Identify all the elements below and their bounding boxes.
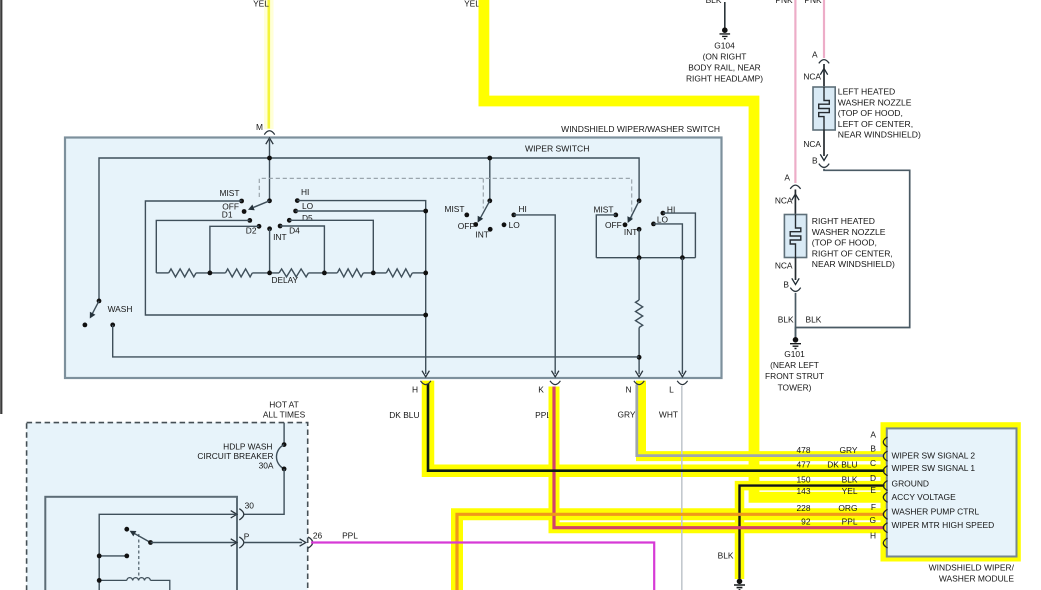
connector A arc (left nozzle) [819, 60, 829, 64]
svg-text:RIGHT OF CENTER,: RIGHT OF CENTER, [812, 248, 893, 258]
svg-text:L: L [669, 385, 674, 395]
connector K arc [550, 381, 560, 385]
svg-text:A: A [784, 172, 790, 182]
wire P to inline connector 26 [244, 542, 302, 544]
wire feed bus from M to wash switch and wiper contacts [99, 158, 639, 301]
switch S3 blade arrow [627, 216, 633, 223]
switch S1 contact D6 [287, 218, 292, 223]
windshield wiper/washer module box [887, 428, 1017, 556]
ground G104 splice [722, 27, 728, 33]
right heated washer nozzle heater element [790, 215, 801, 258]
module pin D connector arc [883, 481, 887, 491]
wire relay pin 30 internal [99, 514, 236, 590]
switch S2 blade arrow [478, 216, 484, 223]
svg-text:TOWER): TOWER) [778, 382, 812, 392]
svg-text:92: 92 [801, 517, 811, 527]
windshield wiper/washer switch box [65, 138, 722, 379]
wire right nozzle to B [795, 258, 797, 281]
wire ORG 228 core (module pin F) [457, 514, 885, 590]
svg-text:E: E [870, 485, 876, 495]
wire WASH to N line [113, 325, 639, 357]
svg-text:WASHER NOZZLE: WASHER NOZZLE [838, 97, 912, 107]
relay NO contact [124, 554, 129, 559]
wire M drop to switch 1 pivot [269, 138, 271, 201]
resistor delay R5 [386, 269, 412, 277]
svg-text:NCA: NCA [803, 139, 821, 149]
circuit breaker CB lower terminal [282, 467, 287, 472]
module pin B connector arc [883, 451, 887, 461]
switch S1 blade [254, 201, 270, 208]
wire NCA into right nozzle [794, 190, 796, 215]
wire highlight PPL 92 [554, 387, 886, 528]
svg-text:MIST: MIST [593, 204, 613, 214]
node tie x INT [637, 255, 642, 260]
connector 26 arc [308, 537, 313, 548]
svg-text:LEFT OF CENTER,: LEFT OF CENTER, [838, 119, 913, 129]
wire drop to switch 2 pivot [489, 158, 491, 201]
svg-text:C: C [870, 458, 876, 468]
svg-text:WIPER SWITCH: WIPER SWITCH [525, 144, 589, 154]
svg-text:G104: G104 [714, 40, 735, 50]
relay coil node [97, 578, 102, 583]
ground G104 symbol [720, 34, 731, 39]
svg-text:B: B [783, 280, 789, 290]
windshield wiper/washer module outer highlight box [881, 422, 1021, 561]
svg-text:M: M [256, 122, 263, 132]
svg-text:OFF: OFF [458, 221, 475, 231]
svg-text:RIGHT HEADLAMP): RIGHT HEADLAMP) [686, 74, 763, 84]
wire YEL (halo) from top to wiper switch pin M [264, 0, 274, 129]
ground G101 symbol [790, 344, 801, 349]
switch S2 blade [480, 201, 490, 218]
relay coil L1 [127, 578, 151, 581]
connector 26 arrow [300, 539, 306, 546]
connector A arrow (right nozzle) [792, 194, 799, 200]
module pin A connector arc [883, 437, 887, 447]
relay NO contact stub [99, 555, 127, 557]
svg-text:WASHER MODULE: WASHER MODULE [939, 573, 1015, 583]
switch S1 contact INT [267, 226, 272, 231]
svg-text:(ON RIGHT: (ON RIGHT [703, 51, 747, 61]
wire R5 to H line [412, 272, 425, 274]
relay blade pivot [148, 540, 153, 545]
svg-text:WINDSHIELD WIPER/: WINDSHIELD WIPER/ [929, 562, 1015, 572]
wire S1 D1 to delay resistor chain [156, 220, 250, 273]
switch S3 contact OFF [623, 222, 628, 227]
connector L arrow [679, 371, 686, 377]
switch S1 contact OFF [242, 209, 247, 214]
svg-text:P: P [244, 532, 250, 542]
resistor delay R3 [279, 269, 308, 277]
wire coil left [99, 579, 127, 581]
switch S1 contact HI [295, 198, 300, 203]
wire BLK to G104 [724, 2, 726, 28]
svg-text:A: A [812, 50, 818, 60]
switch S1 pivot [267, 198, 272, 203]
svg-text:HOT AT: HOT AT [269, 400, 298, 410]
svg-text:PPL: PPL [842, 517, 858, 527]
wire highlight BLK 150 [740, 486, 887, 579]
svg-text:NCA: NCA [775, 195, 793, 205]
module pin E connector arc [883, 492, 887, 502]
module pin H connector arc [883, 538, 887, 548]
svg-text:N: N [625, 385, 631, 395]
connector H arrow [422, 371, 429, 377]
wire delay chain left [156, 272, 168, 274]
wire NCA into left nozzle [823, 64, 825, 87]
svg-text:G: G [869, 515, 876, 525]
svg-text:GRY: GRY [618, 410, 636, 420]
svg-text:NCA: NCA [803, 71, 821, 81]
switch S2 contact HI [511, 213, 516, 218]
svg-text:BLK: BLK [706, 0, 722, 5]
wire highlight YEL accy voltage path [484, 0, 886, 497]
svg-text:FRONT STRUT: FRONT STRUT [765, 371, 824, 381]
svg-text:WIPER SW SIGNAL 1: WIPER SW SIGNAL 1 [892, 463, 976, 473]
svg-text:BLK: BLK [778, 314, 794, 324]
connector L arc [677, 381, 687, 385]
svg-text:228: 228 [797, 503, 811, 513]
wire N lower to box edge [638, 328, 640, 375]
svg-text:GROUND: GROUND [892, 479, 930, 489]
svg-text:RIGHT HEATED: RIGHT HEATED [812, 216, 875, 226]
wire PPL 92 core (K to module pin G) [554, 387, 885, 528]
svg-text:INT: INT [273, 232, 287, 242]
circuit breaker CB arc [276, 445, 284, 469]
svg-text:PNK: PNK [804, 0, 822, 5]
switch WASH output contact [110, 323, 115, 328]
switch S3 contact HI [661, 211, 666, 216]
node H line x MIST [423, 313, 428, 318]
resistor delay R2 [226, 269, 253, 277]
ground G101b splice [737, 579, 743, 585]
svg-text:K: K [538, 385, 544, 395]
wire R2-R3 [252, 272, 279, 274]
relay coil dashed actuator line [138, 534, 140, 576]
dashed linkage between wiper switch sections [259, 178, 631, 219]
switch WASH blade arrow [90, 312, 96, 319]
svg-text:LO: LO [509, 220, 521, 230]
switch S2 pivot [487, 198, 492, 203]
svg-text:OFF: OFF [605, 220, 622, 230]
wire R1-R2 [196, 272, 225, 274]
switch S1 contact D4 [278, 224, 283, 229]
switch WASH blade [92, 301, 99, 314]
svg-text:H: H [412, 385, 418, 395]
switch S3 contact MIST [613, 213, 618, 218]
ground G101 splice [793, 337, 799, 343]
svg-text:INT: INT [475, 229, 489, 239]
wire highlight ORG 228 [457, 514, 886, 590]
wire breaker to relay pin 30 [244, 469, 284, 514]
svg-text:30A: 30A [259, 460, 274, 470]
left heated washer nozzle box [813, 87, 835, 130]
relay NO contact left node [97, 554, 102, 559]
switch S1 contact MIST [239, 199, 244, 204]
svg-text:PPL: PPL [342, 530, 358, 540]
connector K arrow [552, 371, 559, 377]
svg-text:WIPER MTR HIGH SPEED: WIPER MTR HIGH SPEED [892, 520, 995, 530]
wire highlight GRY 478 [641, 381, 886, 457]
module pin C connector arc [883, 466, 887, 476]
relay blade [134, 533, 150, 542]
svg-text:478: 478 [797, 445, 811, 455]
connector P arc [239, 537, 244, 548]
wire S1 D6 to delay chain tap 4 [289, 220, 373, 273]
wire R4-R5 [363, 272, 386, 274]
wire relay pivot to pin P [151, 542, 237, 544]
switch S1 contact D1 [247, 218, 252, 223]
relay contact fixed [124, 527, 129, 532]
svg-text:143: 143 [797, 486, 811, 496]
svg-text:150: 150 [797, 474, 811, 484]
wire right nozzle B to G101 [795, 293, 797, 339]
right heated washer nozzle box [784, 215, 806, 258]
connector B arc (right nozzle) [790, 288, 800, 292]
wire YEL (core) from top to wiper switch pin M [267, 0, 270, 129]
wire BLK 150 core (module pin D to G101) [740, 486, 885, 579]
node delay chain tap1 [208, 271, 213, 276]
connector A arc (right nozzle) [790, 185, 800, 189]
svg-text:(TOP OF HOOD,: (TOP OF HOOD, [838, 108, 903, 118]
svg-text:YEL: YEL [464, 0, 480, 9]
node H line x LO [423, 209, 428, 214]
svg-text:ACCY VOLTAGE: ACCY VOLTAGE [892, 492, 957, 502]
wire S1 MIST to H line [145, 201, 425, 315]
wire L output [681, 258, 683, 374]
svg-text:(NEAR LEFT: (NEAR LEFT [770, 360, 819, 370]
wire S3 INT to tie line [638, 229, 640, 257]
switch WASH upper contact [97, 299, 102, 304]
svg-text:YEL: YEL [253, 0, 269, 9]
node delay chain tap3 [322, 271, 327, 276]
svg-text:D5: D5 [302, 213, 313, 223]
svg-text:B: B [870, 444, 876, 454]
svg-text:ORG: ORG [838, 503, 857, 513]
svg-text:MIST: MIST [444, 204, 464, 214]
svg-text:MIST: MIST [219, 188, 239, 198]
switch S1 blade arrow [248, 205, 255, 211]
svg-text:ALL TIMES: ALL TIMES [263, 410, 306, 420]
module pin G connector arc [883, 523, 887, 533]
svg-text:D4: D4 [289, 226, 300, 236]
svg-text:(TOP OF HOOD,: (TOP OF HOOD, [812, 238, 877, 248]
resistor park (N line) [636, 300, 643, 328]
svg-text:WASHER PUMP CTRL: WASHER PUMP CTRL [892, 507, 980, 517]
svg-text:WINDSHIELD WIPER/WASHER SWITCH: WINDSHIELD WIPER/WASHER SWITCH [561, 124, 720, 134]
wire S1 D4 to delay chain tap 3 [280, 226, 324, 273]
switch S1 contact LO [293, 209, 298, 214]
svg-text:DELAY: DELAY [272, 275, 299, 285]
connector M arc on windshield wiper/washer switch [264, 131, 274, 135]
connector P arrow [231, 539, 237, 546]
resistor delay R1 [169, 269, 196, 277]
switch WASH lower contact [83, 323, 88, 328]
wire S3 LO to tie line [654, 224, 683, 258]
svg-text:WASHER NOZZLE: WASHER NOZZLE [812, 227, 886, 237]
svg-text:BLK: BLK [842, 474, 858, 484]
wire DK BLU 477 core (H to module pin C) [428, 384, 885, 471]
left heated washer nozzle heater element [819, 87, 830, 130]
border-left edge of adjacent component box (cropped) [0, 0, 2, 414]
svg-text:477: 477 [797, 460, 811, 470]
node tie x LO [680, 255, 685, 260]
node delay chain tap2 INT [267, 271, 272, 276]
svg-text:YEL: YEL [842, 486, 858, 496]
connector M arrow into switch [266, 138, 273, 144]
svg-text:30: 30 [245, 501, 255, 511]
svg-text:GRY: GRY [840, 445, 858, 455]
connector H arc [421, 381, 431, 385]
svg-text:WASH: WASH [108, 304, 133, 314]
circuit breaker CB upper terminal [282, 442, 287, 447]
svg-text:DK BLU: DK BLU [389, 410, 419, 420]
wire left nozzle to B [823, 130, 825, 156]
svg-text:A: A [870, 430, 876, 440]
wire N upper [638, 258, 640, 300]
connector 30 arrow [231, 511, 237, 518]
connector 30 arc [239, 509, 244, 520]
wire S2 HI to K output [514, 215, 555, 374]
svg-text:HI: HI [301, 187, 309, 197]
node feed junction at switch 2 [487, 156, 492, 161]
connector B arrow (left nozzle) [820, 154, 827, 160]
svg-text:NEAR WINDSHIELD): NEAR WINDSHIELD) [812, 259, 895, 269]
wire coil right [150, 580, 169, 590]
wire R3-R4 [309, 272, 338, 274]
hdlp wash dashed box [27, 423, 308, 590]
relay blade arrow [130, 531, 137, 537]
node N x wash wire [637, 355, 642, 360]
wire PNK to left heated washer nozzle [823, 0, 825, 58]
wire S3 MIST to tie line [596, 215, 616, 258]
resistor delay R4 [337, 269, 363, 277]
connector B arrow (right nozzle) [792, 278, 799, 284]
wire GRY 478 core (N to module pin B) [637, 385, 885, 456]
svg-text:NCA: NCA [775, 260, 793, 270]
wire S1 D2 to delay chain tap 1 [210, 226, 259, 273]
switch S3 pivot [637, 198, 642, 203]
svg-text:BODY RAIL, NEAR: BODY RAIL, NEAR [688, 63, 760, 73]
svg-text:D: D [870, 473, 876, 483]
switch S2 contact MIST [464, 213, 469, 218]
svg-text:PNK: PNK [775, 0, 793, 5]
wire S3 tie line [596, 257, 695, 259]
wire S3 HI to tie line [663, 213, 696, 258]
switch S2 contact OFF [473, 222, 478, 227]
ground G101b symbol [734, 585, 745, 590]
svg-text:WIPER SW SIGNAL 2: WIPER SW SIGNAL 2 [892, 451, 976, 461]
connector A arrow (left nozzle) [820, 69, 827, 75]
connector N arc [634, 381, 644, 385]
switch S3 contact LO [651, 222, 656, 227]
wire left nozzle B return loop [796, 169, 910, 338]
svg-text:LO: LO [302, 201, 314, 211]
wire highlight DK BLU 477 [428, 381, 886, 471]
svg-text:LEFT HEATED: LEFT HEATED [838, 87, 895, 97]
wire S1 INT to delay chain center [269, 229, 271, 273]
svg-text:INT: INT [624, 227, 638, 237]
node H line x resistor chain [423, 271, 428, 276]
switch S3 blade [630, 201, 639, 219]
switch S2 contact INT [488, 227, 493, 232]
wire WHT (L output, down) [681, 386, 683, 590]
switch S3 contact INT [637, 227, 642, 232]
connector N arrow [635, 371, 642, 377]
wire PNK to right heated washer nozzle [794, 0, 796, 183]
svg-text:WHT: WHT [659, 410, 678, 420]
node delay chain tap4 [371, 271, 376, 276]
svg-text:26: 26 [313, 530, 323, 540]
svg-text:B: B [812, 156, 818, 166]
wire hot feed into breaker [283, 423, 285, 444]
svg-text:G101: G101 [784, 349, 805, 359]
svg-text:BLK: BLK [718, 550, 734, 560]
svg-text:HI: HI [519, 204, 527, 214]
connector B arc (left nozzle) [819, 164, 829, 168]
wire PPL 26 (magenta) to washer pump [311, 543, 654, 590]
svg-text:BLK: BLK [806, 314, 822, 324]
svg-text:F: F [871, 502, 876, 512]
module pin F connector arc [883, 509, 887, 519]
hdlp wash relay box [45, 497, 237, 590]
wire S1 LO to H line [296, 210, 426, 212]
svg-text:NEAR WINDSHIELD): NEAR WINDSHIELD) [838, 130, 921, 140]
svg-text:H: H [870, 531, 876, 541]
switch S2 contact LO [502, 222, 507, 227]
svg-text:D1: D1 [222, 210, 233, 220]
node feed junction at M [267, 156, 272, 161]
svg-text:DK BLU: DK BLU [827, 460, 857, 470]
switch S1 contact D2 [257, 224, 262, 229]
wire S1 HI to H output [297, 201, 425, 374]
svg-text:LO: LO [657, 215, 669, 225]
